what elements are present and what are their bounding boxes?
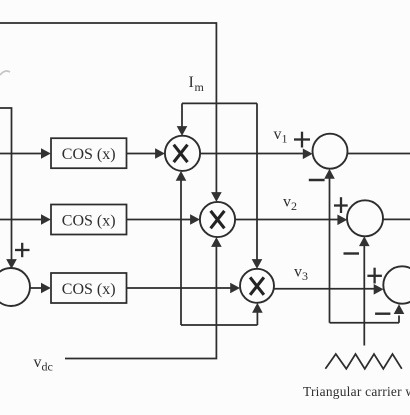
- wire: top horizontal bus from left edge: [0, 23, 216, 103]
- summer S3 (clipped at right): [383, 266, 410, 303]
- wire: Vdc riser to M1 bottom: [176, 171, 187, 325]
- wire: S2 output to right edge: [383, 218, 410, 220]
- multiplier M2: [200, 202, 235, 237]
- multiplier M3: [240, 269, 274, 303]
- wire: Im drop to multiplier M3 top: [252, 103, 263, 269]
- svg-text:dc: dc: [42, 360, 53, 374]
- label Triangular carrier wave: [303, 384, 410, 399]
- svg-text:2: 2: [291, 199, 297, 213]
- block COS(x) 2: [51, 205, 127, 235]
- wire: carrier riser to S1 bottom: [324, 169, 335, 323]
- minus sign of S1 carrier input: [309, 179, 325, 181]
- label X of M1: [174, 145, 188, 162]
- plus sign of S3 input: [367, 268, 382, 284]
- wire: M1 output to summer S1: [200, 149, 313, 160]
- svg-text:v: v: [274, 126, 282, 143]
- wire: Vdc riser to M3 bottom: [252, 303, 263, 325]
- wire: Vdc branch horizontal: [181, 324, 257, 326]
- block COS(x) 1: [51, 138, 127, 168]
- svg-text:3: 3: [302, 269, 308, 283]
- label COS (x) 3: [62, 281, 116, 298]
- wire: COS3 to M3: [127, 283, 241, 294]
- wire: Vdc horizontal then riser to M2 bottom: [65, 237, 222, 358]
- plus sign of left summer: [15, 243, 30, 257]
- wire: row2 input from left edge: [0, 214, 51, 225]
- block COS(x) 3: [51, 273, 127, 303]
- svg-text:m: m: [195, 80, 205, 94]
- wire: COS2 to M2: [127, 214, 200, 225]
- svg-text:1: 1: [282, 132, 288, 146]
- label COS (x) 1: [62, 146, 116, 163]
- svg-text:v: v: [294, 264, 302, 281]
- summer S1: [313, 134, 348, 169]
- svg-text:COS (x): COS (x): [62, 212, 116, 229]
- wire: row1 input from left edge: [0, 148, 51, 159]
- svg-text:COS (x): COS (x): [62, 281, 116, 298]
- svg-text:v: v: [34, 354, 42, 371]
- label v3: [294, 264, 308, 284]
- wire: Im drop to multiplier M2 top: [211, 103, 222, 201]
- label v2: [283, 194, 297, 214]
- label X of M2: [211, 211, 225, 228]
- wire: M3 output to summer S3: [274, 284, 384, 295]
- svg-text:I: I: [189, 74, 194, 91]
- plus sign of S1 input: [294, 132, 310, 148]
- wire: Im drop to multiplier M1 top: [177, 103, 188, 135]
- wire: M2 output to summer S2: [235, 215, 347, 226]
- label X of M3: [250, 277, 264, 294]
- wire: carrier riser to S2 bottom: [359, 236, 370, 345]
- plus sign of S2 input: [334, 197, 348, 213]
- summer SL (left, clipped): [0, 268, 30, 306]
- wire: COS1 to M1: [127, 148, 165, 159]
- node Im branch tee: [182, 102, 257, 104]
- minus sign of S3 carrier input: [375, 313, 390, 315]
- label Vdc: [34, 354, 53, 374]
- label COS (x) 2: [62, 212, 116, 229]
- summer S2: [347, 200, 383, 236]
- svg-text:v: v: [283, 194, 291, 211]
- artifact: faint cropped mark top-left: [0, 71, 10, 75]
- minus sign of S2 carrier input: [344, 252, 360, 254]
- wire: left edge stub into phase vertical: [0, 108, 17, 269]
- svg-text:COS (x): COS (x): [62, 146, 116, 163]
- svg-text:Triangular carrier wave: Triangular carrier wave: [303, 384, 410, 399]
- wire: SL output to COS3: [30, 283, 51, 294]
- label Im: [189, 74, 205, 94]
- wire: S1 output to right edge: [347, 153, 410, 155]
- multiplier M1: [165, 136, 200, 171]
- wire: carrier riser to S3 bottom: [394, 304, 405, 323]
- triangular carrier wave symbol: [325, 354, 401, 369]
- wire: carrier horizontal distribution: [330, 322, 400, 324]
- label v1: [274, 126, 288, 146]
